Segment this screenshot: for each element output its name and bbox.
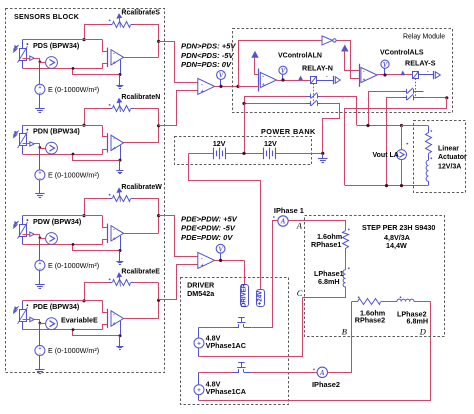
- svg-text:A: A: [319, 370, 325, 377]
- supply arrow VControlALN ref: [252, 52, 258, 57]
- op-amp UN: [107, 133, 109, 152]
- photodiode PDN: [22, 125, 24, 133]
- wire relay-N contacts left: [245, 97, 307, 104]
- block POWER BANK dashed border: [175, 137, 312, 165]
- svg-text:+: +: [113, 322, 116, 328]
- svg-text:12V: 12V: [213, 139, 226, 148]
- wire VPhase1CA bottom to node D: [198, 395, 200, 401]
- svg-text:+: +: [113, 60, 116, 66]
- wire relay-S contact upper left: [369, 92, 403, 126]
- junction LA node VoutLA: [400, 124, 403, 127]
- wire phase1 mid: [345, 248, 347, 270]
- junction row W output node: [157, 214, 160, 217]
- junction LA bottom 2: [400, 184, 403, 187]
- resistor RcalibrateE: [84, 282, 109, 284]
- wire box bottom row W: [23, 244, 103, 246]
- wire op-amp output row S: [124, 57, 159, 59]
- svg-text:PDN<PDS: -5V: PDN<PDS: -5V: [181, 51, 234, 60]
- op-amp US: [107, 48, 109, 67]
- wire ALS output: [377, 74, 413, 76]
- wire relay-S contact lower left: [387, 98, 403, 186]
- junction battery middle: [242, 152, 245, 155]
- svg-text:-: -: [113, 227, 115, 233]
- net label +24V: [257, 290, 265, 307]
- wire battery feed left: [189, 153, 214, 155]
- junction comparator1 V meter: [219, 85, 222, 88]
- wire battery middle: [226, 153, 264, 155]
- wire ammeter2 to node B: [328, 302, 352, 373]
- svg-text:RPhase1: RPhase1: [311, 240, 341, 249]
- svg-text:-: -: [201, 256, 203, 262]
- wire op-amp output row W: [124, 233, 159, 235]
- photodiode PDE: [22, 301, 24, 309]
- resistor RcalibrateS: [84, 24, 109, 26]
- svg-text:+: +: [201, 263, 204, 269]
- inductor LPhase2 6.8mH: [397, 299, 414, 301]
- junction row S ground: [72, 67, 75, 70]
- current source row E: [40, 323, 46, 325]
- block STEP PER dashed border: [305, 216, 445, 337]
- svg-text:Actuator: Actuator: [438, 154, 467, 161]
- wire relay-N contact lower right: [321, 104, 340, 154]
- svg-text:B: B: [342, 327, 347, 337]
- resistor RPhase1 1.6ohm: [343, 231, 349, 249]
- svg-text:+: +: [197, 387, 201, 394]
- ground below op-amp row N: [119, 160, 121, 171]
- wire comparator1 output to relay module: [239, 41, 323, 87]
- wire box top row W: [23, 215, 103, 217]
- svg-text:IPhase 1: IPhase 1: [274, 206, 304, 215]
- svg-text:VControlALS: VControlALS: [380, 50, 424, 57]
- battery B2 12V: [263, 148, 265, 160]
- svg-text:14,4W: 14,4W: [386, 241, 407, 250]
- wire comparator2 output to DRIVER label: [244, 260, 246, 284]
- svg-text:V: V: [281, 68, 286, 75]
- wire VPhase1AC top to switch: [199, 327, 233, 329]
- wire op-amp input bends row S: [103, 40, 108, 52]
- supply arrow VControlALS ref: [342, 46, 348, 51]
- inductor LPhase1 6.8mH: [343, 270, 345, 287]
- wire phase2 mid: [381, 301, 397, 303]
- wire box top row S: [23, 39, 103, 41]
- junction row E output node: [157, 299, 160, 302]
- wire relay outputs junction row: [357, 125, 402, 127]
- svg-text:RELAY-S: RELAY-S: [405, 59, 436, 68]
- block DRIVER dashed border: [181, 278, 289, 405]
- svg-text:SENSORS BLOCK: SENSORS BLOCK: [14, 13, 80, 21]
- wire switch to IPhase1 riser: [252, 221, 273, 328]
- wire E source lead row E: [39, 323, 41, 345]
- ground below E row W: [39, 270, 41, 284]
- svg-text:PDS (BPW34): PDS (BPW34): [33, 41, 80, 50]
- svg-text:IPhase2: IPhase2: [312, 380, 340, 389]
- svg-text:+: +: [113, 236, 116, 242]
- svg-text:E (0-1000W/m²): E (0-1000W/m²): [48, 85, 99, 94]
- junction row S box top: [82, 38, 85, 41]
- svg-text:RcalibrateN: RcalibrateN: [121, 94, 160, 101]
- svg-text:+: +: [113, 146, 116, 152]
- wire feedback left row S: [84, 24, 86, 40]
- wire PDN output to comparator1 plus: [159, 91, 198, 126]
- comparator U5 (PDN vs PDS): [198, 78, 215, 94]
- svg-text:RPhase2: RPhase2: [355, 316, 385, 325]
- relay RELAY-S contact upper: [402, 91, 406, 93]
- svg-text:RcalibrateW: RcalibrateW: [121, 184, 162, 191]
- block Linear Actuator dashed border: [414, 121, 466, 193]
- junction ALN V meter: [281, 78, 284, 81]
- svg-text:-: -: [427, 68, 429, 74]
- wire box bottom row E: [23, 329, 103, 331]
- svg-text:PDE=PDW: 0V: PDE=PDW: 0V: [181, 233, 233, 242]
- wire feedback left row W: [84, 198, 86, 215]
- junction ALS V meter: [383, 73, 386, 76]
- current source row S: [40, 62, 46, 64]
- svg-text:PDE (BPW34): PDE (BPW34): [33, 302, 80, 311]
- junction row N box top: [82, 124, 85, 127]
- wire relay-S contact lower right: [424, 97, 447, 99]
- svg-text:PDN>PDS: +5V: PDN>PDS: +5V: [181, 42, 236, 51]
- ground below op-amp row W: [119, 251, 121, 262]
- svg-text:PDW (BPW34): PDW (BPW34): [33, 217, 82, 226]
- relay RELAY-N contact upper: [306, 96, 310, 98]
- voltmeter comparator1: [217, 71, 226, 80]
- wire photocurrent branch row N: [23, 143, 30, 145]
- junction comparator2 V meter: [219, 259, 222, 262]
- junction row W ground: [72, 243, 75, 246]
- relay RELAY-S actuator link: [415, 78, 417, 98]
- current source row N: [40, 148, 46, 150]
- junction row E ground: [72, 328, 75, 331]
- wire ALN output: [277, 80, 311, 82]
- op-amp ground pin row N: [120, 145, 122, 160]
- svg-text:DRIVER: DRIVER: [240, 283, 247, 307]
- svg-text:-: -: [326, 73, 328, 79]
- svg-text:12V: 12V: [264, 139, 277, 148]
- wire node B riser: [351, 302, 353, 373]
- voltage source E row E: [35, 346, 45, 356]
- op-amp ground pin row S: [120, 60, 122, 75]
- svg-text:RELAY-N: RELAY-N: [302, 64, 333, 73]
- svg-text:-: -: [113, 312, 115, 318]
- svg-text:PDE<PDW: -5V: PDE<PDW: -5V: [181, 224, 236, 233]
- ground below op-amp row E: [119, 336, 121, 347]
- net label DRIVER: [241, 285, 249, 307]
- ground below E row E: [39, 356, 41, 370]
- wire op-amp input bends row W: [103, 216, 108, 228]
- svg-text:-: -: [113, 51, 115, 57]
- block SENSORS BLOCK dashed border: [6, 9, 165, 373]
- wire comparator1 to ALN input: [238, 86, 259, 88]
- source Vout LA: [401, 126, 403, 150]
- wire phase1 bottom to node C: [303, 287, 346, 298]
- op-amp ground pin row W: [120, 236, 122, 251]
- svg-text:6.8mH: 6.8mH: [318, 277, 340, 286]
- voltage source E row W: [35, 260, 45, 270]
- wire ground stub row E: [73, 330, 121, 336]
- svg-text:V: V: [219, 73, 224, 80]
- wire comparator1 output: [215, 86, 238, 88]
- voltmeter VControlALS: [381, 60, 389, 68]
- svg-text:PDN (BPW34): PDN (BPW34): [33, 126, 80, 135]
- comparator U6 (PDE vs PDW): [198, 252, 215, 268]
- inverter U7: [322, 36, 333, 45]
- wire switch2 to ammeter IPhase2: [251, 372, 317, 374]
- relay coil RELAY-S: [401, 72, 404, 75]
- ammeter IPhase1: [278, 216, 288, 226]
- wire battery right: [276, 153, 323, 155]
- block Relay Module dashed border: [233, 29, 453, 113]
- svg-text:+: +: [363, 78, 366, 84]
- junction row W interior: [39, 237, 42, 240]
- junction relay-N left: [242, 102, 245, 105]
- wire inverter output to ALS: [337, 41, 360, 79]
- wire box top row E: [23, 300, 103, 302]
- wire linear actuator bottom: [345, 185, 428, 187]
- svg-text:VPhase1AC: VPhase1AC: [206, 341, 246, 350]
- current source row W: [40, 238, 46, 240]
- svg-text:E (0-1000W/m²): E (0-1000W/m²): [48, 346, 99, 355]
- svg-text:A: A: [280, 219, 286, 226]
- wire PDW output to comparator2 minus: [159, 216, 198, 257]
- junction row N interior: [39, 146, 42, 149]
- svg-text:VPhase1CA: VPhase1CA: [206, 387, 246, 396]
- relay RELAY-N actuator link: [313, 83, 315, 104]
- svg-text:EvariableE: EvariableE: [61, 316, 98, 325]
- ground below E row S: [39, 94, 41, 108]
- svg-text:PDN=PDS: 0V: PDN=PDS: 0V: [181, 60, 232, 69]
- junction relay-S right: [445, 96, 448, 99]
- battery B1 12V: [213, 148, 215, 160]
- svg-text:RcalibrateE: RcalibrateE: [121, 269, 160, 276]
- wire op-amp output row N: [124, 142, 159, 144]
- voltage source VPhase1CA: [194, 385, 204, 395]
- relay RELAY-N contact lower: [306, 103, 310, 105]
- wire Vout LA bottom: [401, 160, 403, 186]
- photodiode PDW: [22, 216, 24, 224]
- junction row S output node: [157, 40, 160, 43]
- switch SW2 phase2: [233, 372, 239, 374]
- svg-text:RcalibrateS: RcalibrateS: [121, 10, 160, 17]
- wire box bottom row N: [23, 154, 103, 156]
- svg-text:POWER BANK: POWER BANK: [261, 127, 316, 136]
- svg-text:C: C: [297, 288, 303, 298]
- resistor RPhase2 1.6ohm: [352, 301, 358, 303]
- photodiode PDS: [22, 40, 24, 48]
- junction row E box top: [82, 299, 85, 302]
- ammeter IPhase2: [317, 367, 327, 377]
- voltage source VPhase1AC: [198, 327, 200, 338]
- svg-text:+: +: [262, 83, 265, 89]
- svg-text:A: A: [296, 220, 303, 230]
- wire to linear actuator top: [402, 125, 429, 127]
- wire box bottom row S: [23, 68, 103, 70]
- wire arrow to ALN plus input: [255, 58, 259, 75]
- wire op-amp input bends row E: [103, 301, 108, 313]
- wire relay-N contact upper right: [321, 97, 357, 126]
- resistor RcalibrateN: [84, 108, 109, 110]
- svg-text:+: +: [197, 340, 201, 347]
- op-amp VControlALN: [258, 69, 260, 92]
- relay RELAY-S contact lower: [402, 97, 406, 99]
- voltage source E row S: [35, 84, 45, 94]
- junction row S interior: [39, 61, 42, 64]
- wire photocurrent branch row W: [23, 234, 30, 236]
- wire feedback left row N: [84, 109, 86, 126]
- op-amp UW: [107, 224, 109, 243]
- op-amp VControlALS: [359, 64, 361, 87]
- resistor linear actuator: [428, 126, 430, 133]
- op-amp ground pin row E: [120, 321, 122, 336]
- svg-text:Vout LA: Vout LA: [373, 152, 399, 159]
- svg-text:VControlALN: VControlALN: [278, 53, 322, 60]
- wire feedback left row E: [84, 283, 86, 301]
- svg-text:+: +: [201, 89, 204, 95]
- svg-text:+24V: +24V: [257, 290, 264, 305]
- wire op-amp output row E: [124, 318, 159, 320]
- junction row W box top: [82, 214, 85, 217]
- voltage source E row N: [35, 170, 45, 180]
- svg-text:E (0-1000W/m²): E (0-1000W/m²): [48, 261, 99, 270]
- svg-text:D: D: [419, 327, 427, 337]
- junction comparator1 output: [236, 85, 239, 88]
- wire comparator2 output: [215, 260, 244, 262]
- wire ground stub row S: [73, 69, 121, 75]
- ground power bank: [322, 153, 324, 158]
- wire photocurrent branch row S: [23, 58, 30, 60]
- inductor linear actuator: [428, 154, 430, 161]
- resistor RcalibrateW: [84, 198, 109, 200]
- voltmeter comparator2: [216, 244, 225, 253]
- wire ammeter1 to phase1 chain: [289, 221, 346, 231]
- voltmeter VControlALN: [279, 66, 287, 74]
- junction row N ground: [72, 153, 75, 156]
- svg-text:E (0-1000W/m²): E (0-1000W/m²): [48, 170, 99, 179]
- switch SW1 phase1: [233, 327, 239, 329]
- wire PDE output to comparator2 plus: [159, 265, 198, 300]
- wire phase2 to node D: [414, 301, 431, 303]
- junction LA bottom 1: [385, 184, 388, 187]
- svg-text:Linear: Linear: [438, 146, 459, 153]
- wire ground stub row N: [73, 155, 121, 161]
- junction LA node left: [366, 124, 369, 127]
- wire op-amp input bends row N: [103, 126, 108, 137]
- svg-text:12V/3A: 12V/3A: [438, 163, 461, 170]
- wire relay-N to battery junction: [244, 104, 246, 154]
- svg-text:Relay Module: Relay Module: [403, 34, 445, 41]
- junction row N output node: [157, 124, 160, 127]
- op-amp UE: [107, 309, 109, 328]
- wire ground stub row W: [73, 245, 121, 251]
- wire arrow to ALS plus input: [345, 51, 360, 71]
- wire PDS output to comparator1 minus: [159, 42, 198, 83]
- relay coil RELAY-N: [299, 77, 302, 80]
- svg-text:PDE>PDW: +5V: PDE>PDW: +5V: [181, 214, 238, 223]
- svg-text:-: -: [201, 82, 203, 88]
- wire E source lead row W: [39, 238, 41, 260]
- junction battery right: [321, 152, 324, 155]
- wire box top row N: [23, 125, 103, 127]
- wire E source lead row S: [39, 62, 41, 84]
- wire photocurrent branch row E: [23, 319, 30, 321]
- svg-text:6.8mH: 6.8mH: [407, 317, 429, 326]
- junction row E interior: [39, 322, 42, 325]
- svg-text:DM542a: DM542a: [187, 289, 215, 298]
- svg-text:STEP PER 23H S9430: STEP PER 23H S9430: [362, 223, 435, 232]
- svg-text:V: V: [383, 62, 388, 69]
- ground below op-amp row S: [119, 75, 121, 86]
- svg-text:-: -: [113, 136, 115, 142]
- wire VPhase1AC bottom to node C: [198, 348, 200, 357]
- wire power bank to +24V label: [189, 154, 261, 290]
- ground below E row N: [39, 180, 41, 194]
- svg-text:V: V: [218, 246, 223, 253]
- wire relay-S right loop: [345, 98, 447, 186]
- wire E source lead row N: [39, 148, 41, 170]
- wire VPhase1CA top to switch: [199, 372, 233, 374]
